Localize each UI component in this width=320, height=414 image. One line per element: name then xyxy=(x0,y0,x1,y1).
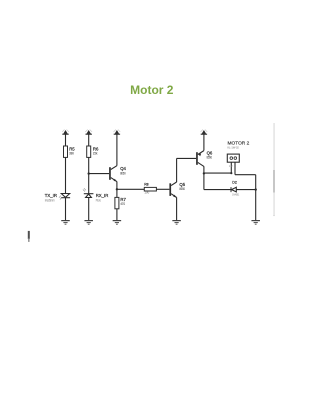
diode D2 xyxy=(231,180,239,196)
wire right rail down xyxy=(255,175,257,221)
transistor Q5 xyxy=(169,182,185,198)
wire motor pin 2 to right rail xyxy=(235,174,256,176)
transistor Q4 xyxy=(109,166,126,182)
wire motor pin 1 up xyxy=(230,162,232,173)
wire junction to Q4 base xyxy=(89,173,109,175)
node motor pin 1 corner xyxy=(230,172,232,174)
node Q6 collector junction xyxy=(203,172,205,174)
wire R7 to ground xyxy=(116,209,118,220)
wire RX_IR to ground xyxy=(88,198,90,221)
wire collector node to motor pin 1 xyxy=(204,172,231,174)
svg-text:1N4001: 1N4001 xyxy=(232,193,239,197)
transistor Q6 xyxy=(196,150,213,166)
svg-text:8050: 8050 xyxy=(120,171,126,175)
supply +5V arrow (net of Q6 emitter) xyxy=(201,130,208,135)
supply +5V arrow (net of Q4 collector) xyxy=(114,130,121,135)
svg-text:R8: R8 xyxy=(144,183,148,187)
svg-text:TX_IR: TX_IR xyxy=(45,193,57,198)
resistor R8 xyxy=(144,183,156,195)
node RX junction to Q4 base xyxy=(88,172,90,174)
wire VCC to R5 xyxy=(65,134,67,146)
svg-text:100: 100 xyxy=(144,191,149,195)
svg-text:Photo: Photo xyxy=(96,199,101,203)
resistor R7 xyxy=(115,197,127,209)
svg-text:1 2: 1 2 xyxy=(229,164,233,168)
right margin vertical note xyxy=(273,123,274,216)
wire Q5 collector to Q6 base xyxy=(177,157,197,159)
wire Q4 emitter down xyxy=(116,182,118,198)
svg-text:Q4: Q4 xyxy=(120,166,126,171)
svg-text:RX_IR: RX_IR xyxy=(96,193,109,198)
wire Q5 collector up xyxy=(176,158,178,182)
ground under R7 xyxy=(113,220,122,225)
svg-text:Irled5mm: Irled5mm xyxy=(45,199,55,203)
ground under TX_IR xyxy=(61,220,70,225)
wire Q6 emitter to VCC xyxy=(203,134,205,150)
resistor R5 xyxy=(64,146,76,157)
node flyback row meets right rail xyxy=(255,188,257,190)
svg-text:Motor 2: Motor 2 xyxy=(130,83,174,97)
wire TX_IR cathode to ground xyxy=(65,198,67,221)
svg-text:D2: D2 xyxy=(232,180,237,184)
LED TX_IR xyxy=(45,193,70,203)
resistor R6 xyxy=(87,146,99,157)
svg-text:390: 390 xyxy=(69,152,74,156)
svg-text:8050: 8050 xyxy=(179,187,185,191)
wire VCC to R6 xyxy=(88,134,90,146)
wire R8 to Q5 base xyxy=(156,188,169,190)
connector MOTOR 2 xyxy=(227,141,249,169)
wire motor pin 2 down xyxy=(234,162,236,175)
wire Q4 emitter to R8 xyxy=(117,188,144,190)
ground under Q5 xyxy=(172,220,181,225)
svg-text:470: 470 xyxy=(120,202,125,206)
wire R5 to TX_IR anode xyxy=(65,157,67,193)
node Q4 emitter junction xyxy=(116,188,118,190)
svg-text:22k: 22k xyxy=(93,152,98,156)
wire collector node down to flyback row xyxy=(203,173,205,189)
wire flyback row xyxy=(204,189,256,191)
svg-text:8550: 8550 xyxy=(207,155,213,159)
wire Q6 collector down xyxy=(203,166,205,173)
supply +5V arrow (net of R5) xyxy=(62,130,69,135)
svg-text:KL-1W-02: KL-1W-02 xyxy=(228,146,240,150)
wire Q5 emitter to ground xyxy=(176,197,178,220)
supply +5V arrow (net of R6) xyxy=(85,130,92,135)
ground under RX_IR xyxy=(84,220,93,225)
wire R6 to RX_IR xyxy=(88,157,90,193)
photodiode RX_IR xyxy=(83,188,108,203)
frame fold mark bottom left xyxy=(28,231,30,242)
wire VCC to Q4 collector xyxy=(116,134,118,165)
ground under right rail xyxy=(251,220,260,225)
